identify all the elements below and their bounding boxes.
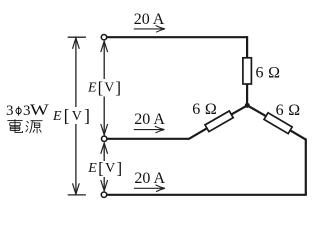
dimension long E arrowhead up bbox=[73, 38, 80, 49]
svg-text:3: 3 bbox=[6, 103, 14, 119]
svg-text:E[V]: E[V] bbox=[87, 159, 123, 178]
wire middle phase horizontal bbox=[107, 138, 190, 140]
resistor R right 6ohm (diagonal box) bbox=[264, 113, 292, 134]
wire top phase horizontal bbox=[107, 36, 248, 38]
svg-text:W: W bbox=[30, 101, 50, 119]
kanji GEN (source) drawn bbox=[26, 121, 42, 133]
svg-text:20 A: 20 A bbox=[134, 111, 165, 128]
dimension lower E arrowhead up bbox=[101, 143, 108, 154]
svg-text:20 A: 20 A bbox=[134, 170, 165, 187]
dimension lower E arrowhead down bbox=[101, 180, 108, 191]
phi symbol bbox=[16, 106, 21, 115]
dimension long E vertical line bbox=[75, 38, 77, 195]
wire right vertical drop bbox=[305, 139, 307, 195]
dimension long E top tick bbox=[68, 36, 86, 38]
svg-text:E[V]: E[V] bbox=[87, 78, 122, 97]
current arrow top bbox=[134, 26, 165, 33]
wire right resistor to right corner bbox=[290, 130, 306, 139]
resistor R left 6ohm (diagonal box) bbox=[205, 111, 233, 132]
svg-text:6 Ω: 6 Ω bbox=[256, 65, 281, 82]
current arrow bottom bbox=[134, 185, 165, 192]
wire bottom phase horizontal bbox=[107, 194, 307, 196]
dimension upper E arrowhead up bbox=[101, 41, 108, 52]
dimension upper E vertical line bbox=[103, 41, 105, 135]
node N neutral junction dot bbox=[245, 103, 250, 108]
current arrow middle bbox=[134, 126, 165, 133]
wire node to left resistor bbox=[232, 105, 248, 114]
terminal top (open circle) bbox=[101, 35, 106, 40]
resistor R top 6ohm (vertical box) bbox=[243, 58, 252, 84]
wire top corner down to resistor bbox=[246, 36, 248, 58]
svg-text:E[V]: E[V] bbox=[52, 106, 92, 126]
svg-text:20 A: 20 A bbox=[134, 11, 165, 28]
terminal bottom (open circle) bbox=[101, 192, 106, 197]
wire resistor bottom to node bbox=[246, 84, 248, 106]
kanji DEN (electricity) drawn bbox=[7, 119, 22, 132]
dimension long E bottom tick bbox=[68, 194, 86, 196]
dimension upper E arrowhead down bbox=[101, 124, 108, 135]
terminal middle (open circle) bbox=[102, 136, 107, 141]
wire node to right resistor bbox=[247, 105, 266, 116]
svg-text:6 Ω: 6 Ω bbox=[276, 102, 301, 119]
svg-text:6 Ω: 6 Ω bbox=[192, 101, 217, 118]
wire left resistor to middle corner bbox=[189, 128, 207, 139]
dimension long E arrowhead down bbox=[73, 183, 80, 194]
dimension lower E vertical line bbox=[103, 143, 105, 191]
